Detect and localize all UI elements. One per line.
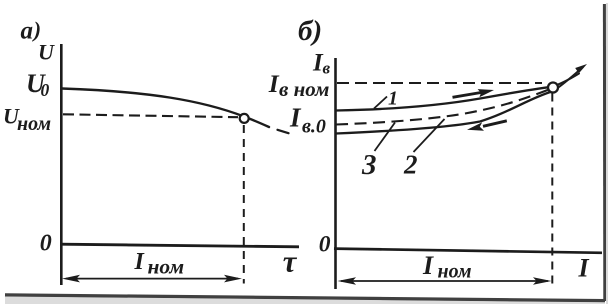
label U_nom: [3, 104, 51, 135]
y-axis right graph: [334, 58, 337, 289]
dashed vertical at I_nom left: [243, 125, 245, 284]
curve 3 extension beyond point: [552, 67, 583, 92]
curve 2 dashed middle: [336, 89, 552, 125]
leader line to label 2: [414, 119, 445, 152]
span arrow I_nom right: [338, 277, 552, 285]
label Iv: [312, 50, 331, 78]
svg-text:): ): [32, 17, 41, 42]
svg-text:ном: ном: [148, 255, 185, 279]
leader line to label 1: [374, 97, 387, 109]
svg-text:0: 0: [40, 231, 52, 257]
scan margin bottom strip: [5, 297, 605, 304]
svg-text:2: 2: [403, 150, 418, 180]
dashed vertical at I_nom right: [551, 94, 553, 290]
direction arrow upper (rightward): [453, 89, 495, 97]
svg-text:I: I: [268, 69, 280, 98]
curve 3 bottom solid: [336, 92, 552, 134]
svg-text:I: I: [289, 103, 302, 133]
svg-text:I: I: [134, 249, 146, 275]
working point right: [548, 83, 558, 93]
curve 1 extension beyond point: [552, 74, 579, 87]
svg-text:a: a: [21, 18, 34, 45]
svg-text:ном: ном: [438, 260, 472, 282]
curve U(I): [62, 89, 269, 128]
svg-text:U: U: [38, 40, 55, 65]
svg-text:в.0: в.0: [302, 116, 326, 138]
label I_nom left: [134, 249, 185, 279]
arrowhead at curve tip: [575, 64, 587, 73]
svg-text:0: 0: [319, 232, 331, 258]
svg-text:τ: τ: [283, 245, 298, 279]
dashed level Iv_nom: [337, 82, 542, 84]
span arrow I_nom left: [62, 275, 242, 283]
svg-text:ном: ном: [17, 113, 51, 135]
scan border right: [603, 4, 606, 301]
svg-text:0: 0: [41, 80, 50, 100]
x-axis right graph: [334, 249, 602, 253]
dashed level U_nom: [63, 114, 238, 117]
leader line to label 3: [375, 123, 396, 152]
label Iv.0: [289, 103, 326, 138]
svg-text:в ном: в ном: [279, 77, 329, 101]
curve 1 top solid: [336, 87, 552, 111]
svg-text:I: I: [422, 251, 434, 280]
curve trailing dash: [278, 130, 289, 133]
x-axis left graph: [60, 244, 299, 247]
svg-text:б): б): [298, 15, 322, 47]
scan border bottom: [5, 295, 605, 301]
svg-text:1: 1: [388, 88, 398, 110]
label Iv nom: [268, 69, 330, 101]
label U0: [26, 69, 50, 100]
label I_nom right: [422, 251, 472, 282]
svg-text:I: I: [578, 254, 590, 283]
working point left: [240, 114, 249, 123]
svg-text:в: в: [323, 59, 331, 78]
scan margin right strip: [606, 3, 608, 304]
direction arrow lower (leftward): [467, 121, 507, 131]
svg-text:3: 3: [361, 149, 377, 181]
y-axis left graph: [60, 44, 63, 285]
